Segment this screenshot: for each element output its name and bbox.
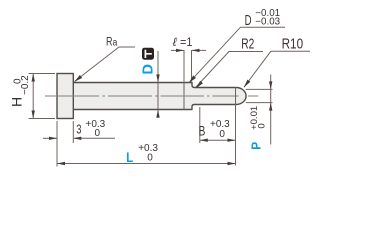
pin shaft and tip body xyxy=(73,83,246,110)
svg-text:a: a xyxy=(113,37,118,49)
svg-text:D: D xyxy=(245,12,252,29)
svg-text:D: D xyxy=(140,64,156,74)
B dimension extension lines xyxy=(200,88,236,166)
H dimension extension lines xyxy=(29,74,56,119)
svg-text:L: L xyxy=(126,150,133,165)
H dimension line with arrows xyxy=(32,74,35,119)
H dimension label (rotated) xyxy=(8,75,31,107)
svg-text:R10: R10 xyxy=(282,36,304,52)
svg-text:R2: R2 xyxy=(241,36,254,52)
svg-text:0: 0 xyxy=(219,129,225,140)
svg-text:H: H xyxy=(8,97,24,107)
centerline xyxy=(45,95,258,97)
D diameter dimension line through shaft xyxy=(156,51,159,118)
3 dimension line with arrows xyxy=(43,137,115,140)
3 dimension extension lines xyxy=(57,121,73,167)
svg-text:P: P xyxy=(249,142,264,150)
P dimension label (rotated) xyxy=(249,106,268,150)
svg-text:3: 3 xyxy=(76,122,81,137)
D datum icon xyxy=(142,48,154,60)
L dimension line with arrows xyxy=(57,162,236,165)
svg-text:−0.03: −0.03 xyxy=(255,16,280,27)
D tolerance leader xyxy=(189,27,285,83)
pin head xyxy=(57,74,73,119)
l=1 dimension xyxy=(171,49,206,82)
svg-text:0: 0 xyxy=(147,153,153,164)
P dimension extension lines xyxy=(246,89,273,102)
svg-text:=1: =1 xyxy=(180,35,193,49)
B dimension line with arrows xyxy=(200,139,236,142)
R10 leader xyxy=(244,51,310,87)
svg-text:B: B xyxy=(199,122,206,138)
svg-text:0: 0 xyxy=(12,78,23,84)
R2 leader xyxy=(196,52,263,89)
Ra leader xyxy=(74,47,135,82)
land boundary line on shaft xyxy=(183,83,185,110)
svg-text:0: 0 xyxy=(256,123,267,128)
D datum blue letter (rotated) xyxy=(140,64,156,74)
svg-text:0: 0 xyxy=(95,128,101,139)
P dimension line with arrows xyxy=(269,75,272,145)
